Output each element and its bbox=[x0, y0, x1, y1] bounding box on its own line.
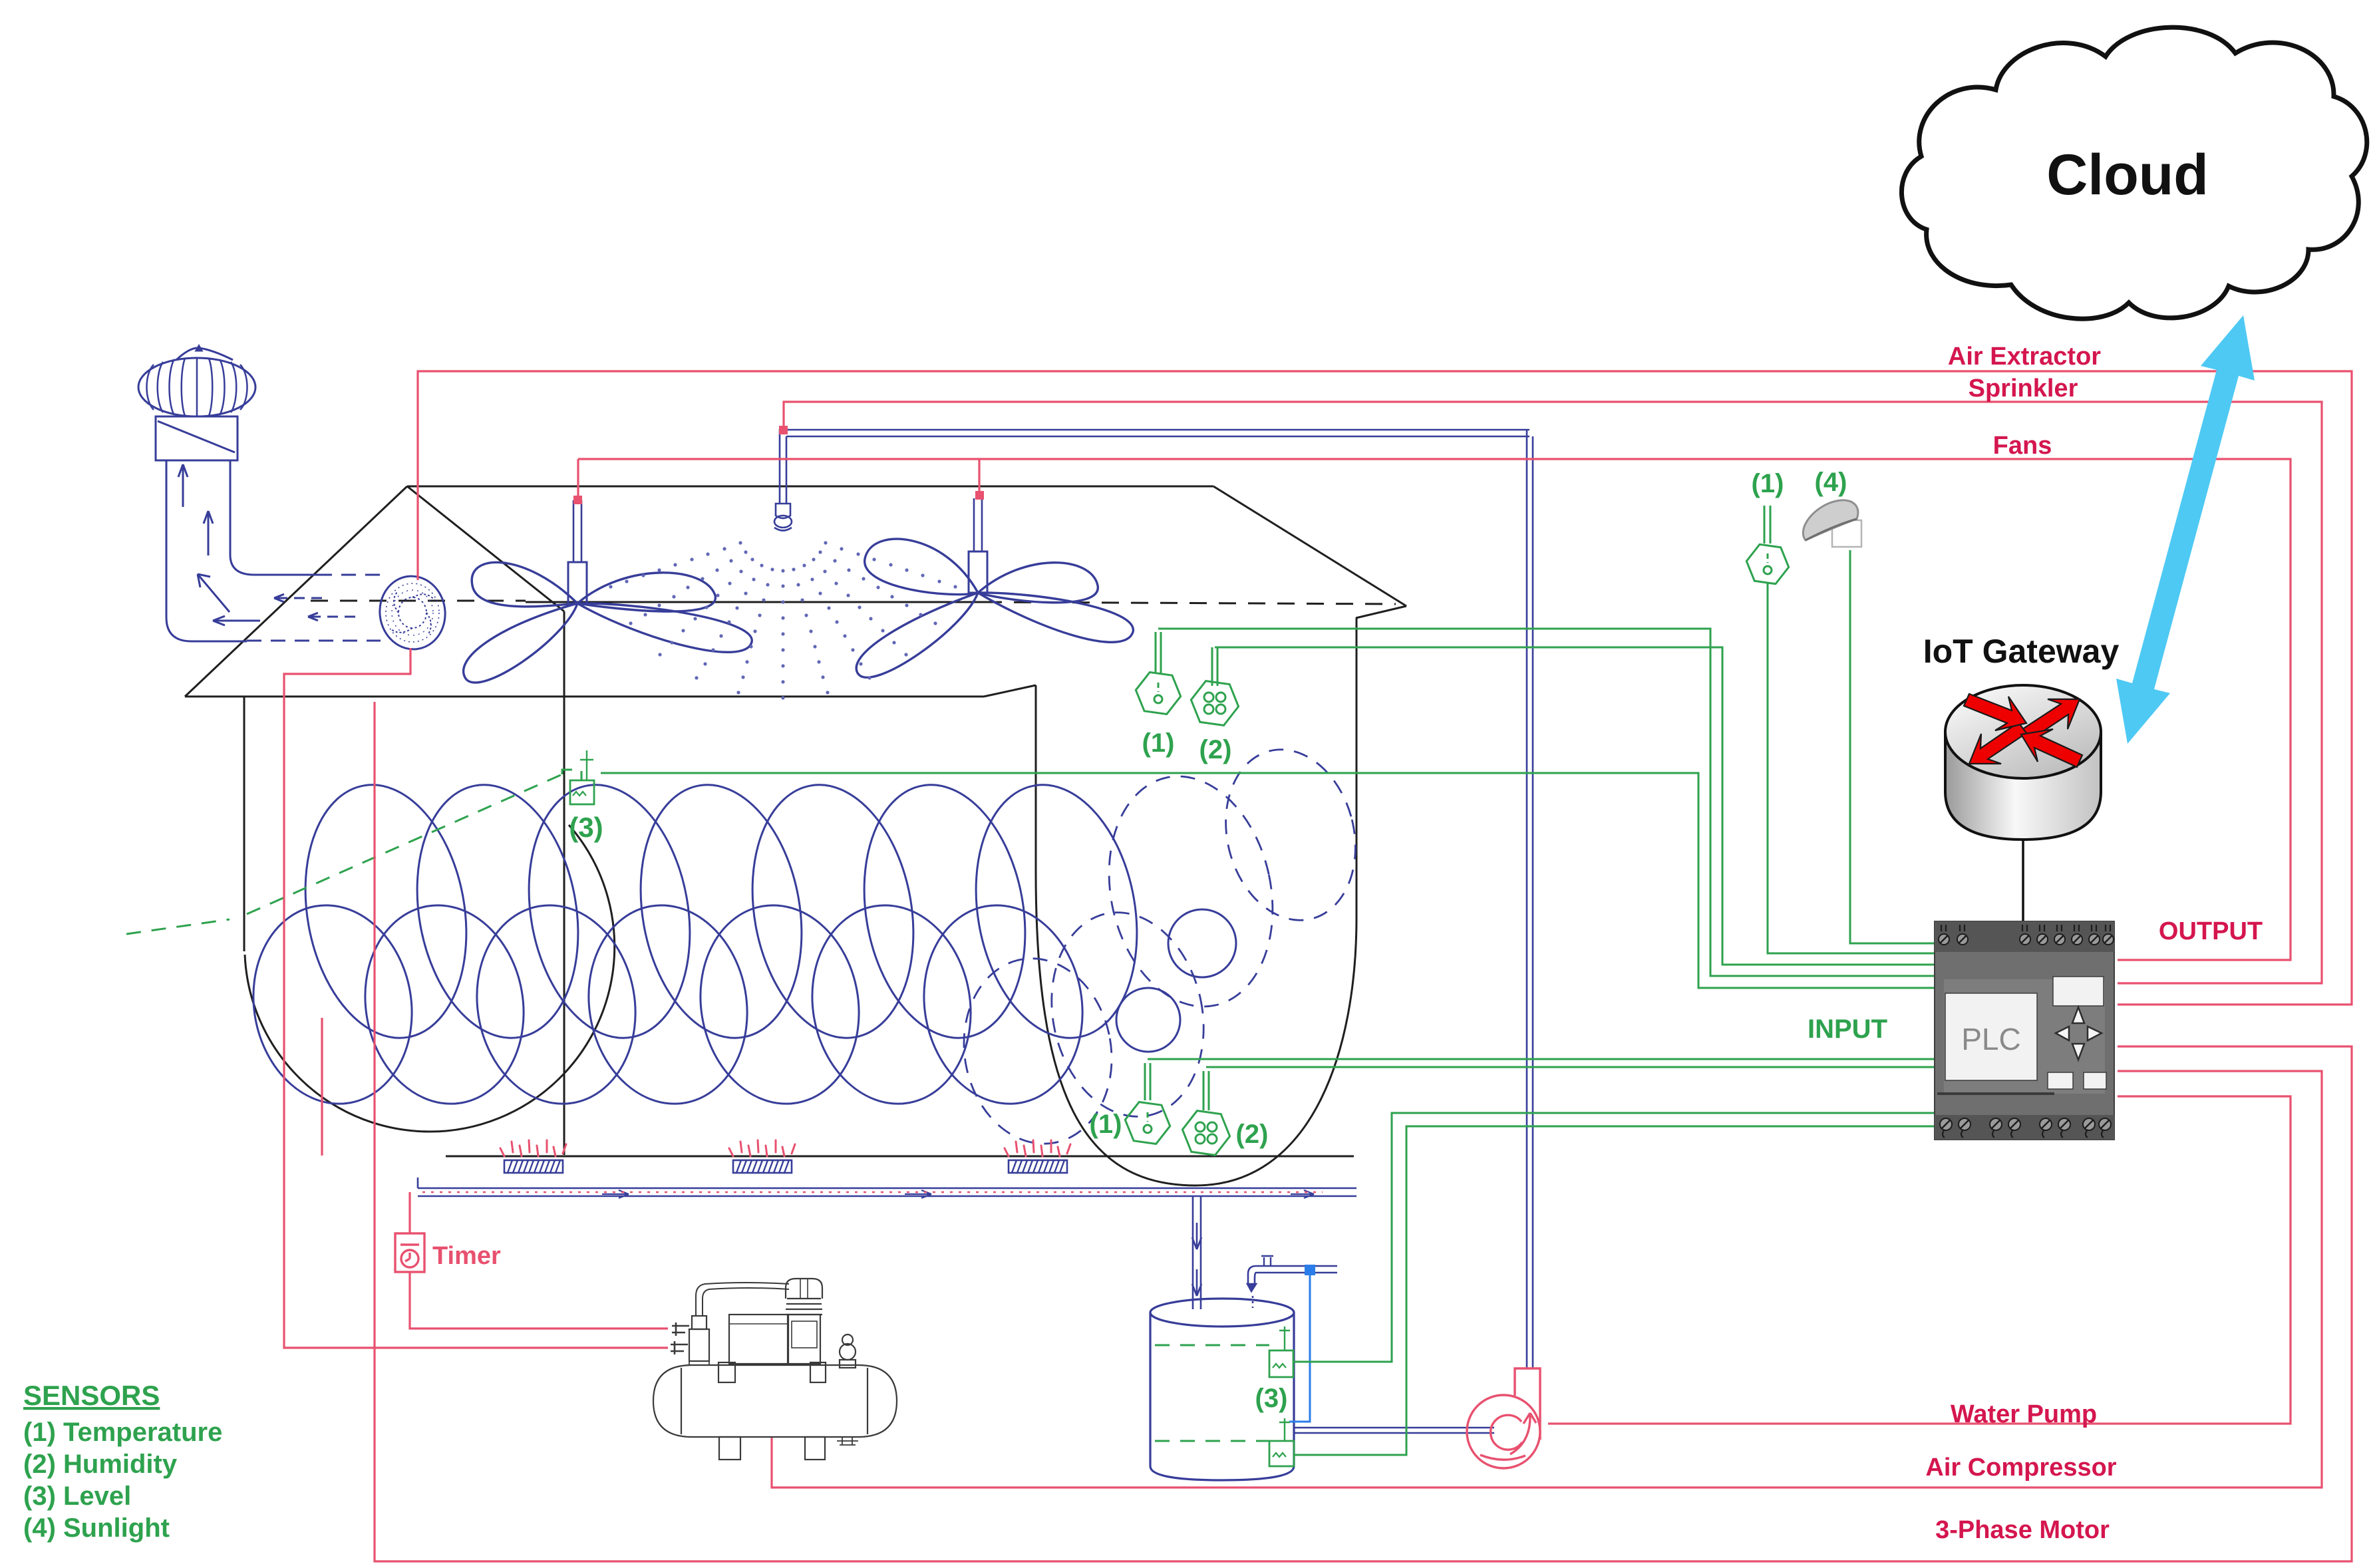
red labels bbox=[432, 343, 2263, 1544]
sensor (2) house top hexagon bbox=[1191, 681, 1238, 726]
heat flames at x=802 bbox=[500, 1148, 504, 1156]
air compressor assembly bbox=[653, 1279, 897, 1460]
ceiling fan 2 bbox=[856, 498, 1133, 677]
water pump volute bbox=[1467, 1368, 1540, 1468]
gateway-PLC link bbox=[2022, 840, 2024, 921]
compost probe (1): wire to PLC bbox=[1145, 1059, 1935, 1100]
heater element at x=1102 bbox=[733, 1160, 792, 1173]
svg-text:IoT Gateway: IoT Gateway bbox=[1923, 633, 2120, 670]
wire: fans output bbox=[578, 459, 2291, 960]
svg-text:(4): (4) bbox=[1815, 468, 1847, 497]
PLC display bbox=[1945, 993, 2037, 1080]
svg-text:(1): (1) bbox=[1142, 728, 1175, 758]
svg-text:INPUT: INPUT bbox=[1808, 1015, 1887, 1044]
heater power line (dotted) bbox=[422, 1191, 1323, 1193]
house: right roof fold bbox=[1356, 606, 1406, 618]
sensor (1) drum bottom hexagon bbox=[1125, 1102, 1170, 1144]
PLC controller bbox=[1935, 921, 2114, 1140]
sunlight sensor (4) dish bbox=[1803, 500, 1861, 547]
air extractor: neck box bbox=[156, 416, 237, 460]
wire: water pump output bbox=[1548, 1096, 2291, 1424]
sensor (1) standalone: riser and wire bbox=[1764, 506, 1770, 544]
auger hidden coils (dashed) bbox=[949, 736, 1372, 1156]
trough level sensor (3): wire to PLC bbox=[601, 773, 1935, 988]
duct: hidden continuation (dashed) bbox=[317, 574, 383, 576]
svg-text:Cloud: Cloud bbox=[2046, 143, 2209, 207]
wire: sprinkler output bbox=[784, 402, 2322, 983]
svg-text:Air Compressor: Air Compressor bbox=[1925, 1454, 2116, 1482]
svg-text:(3) Level: (3) Level bbox=[23, 1482, 131, 1511]
green labels bbox=[569, 468, 1887, 1413]
trough: left wall bbox=[243, 697, 245, 951]
ceiling fan 1 bbox=[464, 500, 752, 683]
svg-text:(4) Sunlight: (4) Sunlight bbox=[23, 1513, 170, 1543]
wire: timer to heater line bbox=[408, 1192, 410, 1233]
wire: exhaust fan feed bbox=[284, 648, 668, 1348]
water tank bbox=[1150, 1299, 1294, 1480]
heat flames at x=1560 bbox=[1005, 1148, 1009, 1156]
PLC arrow keypad bbox=[2056, 1007, 2102, 1060]
fan connector squares bbox=[573, 426, 984, 504]
sprinkler: supply pipe bbox=[780, 430, 1533, 1368]
trough level sensor (3): body bbox=[570, 780, 594, 804]
svg-text:(1) Temperature: (1) Temperature bbox=[23, 1418, 222, 1447]
cloud-gateway data link arrow bbox=[2116, 315, 2255, 744]
tank lower level sensor body bbox=[1269, 1441, 1294, 1466]
wire: air compressor output bbox=[772, 1071, 2322, 1488]
trough compost level (dashed) bbox=[247, 770, 581, 914]
house: front eave bbox=[185, 696, 984, 698]
pump suction line bbox=[1294, 1428, 1494, 1433]
trough: floor line bbox=[446, 1156, 1354, 1158]
heater element at x=758 bbox=[504, 1160, 563, 1173]
wire: air extractor output bbox=[418, 371, 2352, 1005]
house: left roof slope bbox=[185, 486, 407, 697]
bottom pipe lines bbox=[418, 1177, 1356, 1198]
trough: left end cap arc bbox=[245, 825, 615, 1132]
house: right roof slope bbox=[1213, 486, 1406, 606]
svg-text:SENSORS: SENSORS bbox=[23, 1380, 160, 1411]
svg-text:Timer: Timer bbox=[432, 1242, 501, 1270]
sunlight sensor (4): wire bbox=[1850, 550, 1935, 943]
PLC buttons bbox=[2048, 1072, 2073, 1089]
tank lower level sensor: wire to PLC bbox=[1294, 1126, 1935, 1455]
tank upper level sensor body bbox=[1269, 1350, 1293, 1377]
PLC terminal screws bbox=[1939, 925, 2114, 1138]
svg-text:(2): (2) bbox=[1199, 735, 1232, 764]
sensor (1) house top: riser and wire bbox=[1156, 632, 1161, 674]
svg-text:(1): (1) bbox=[1090, 1110, 1122, 1139]
cloud bbox=[1901, 27, 2366, 319]
house: roof ridge bbox=[185, 486, 1406, 1185]
svg-text:(2): (2) bbox=[1236, 1120, 1269, 1149]
svg-text:Water Pump: Water Pump bbox=[1951, 1400, 2097, 1428]
house: eave notch diagonal bbox=[984, 685, 1036, 697]
air extractor: turbine bulb bbox=[138, 346, 255, 416]
svg-text:Air Extractor: Air Extractor bbox=[1948, 343, 2101, 371]
wire: timer to compressor bbox=[410, 1272, 668, 1329]
wire: 3-phase motor output bbox=[375, 702, 2352, 1561]
svg-text:Sprinkler: Sprinkler bbox=[1969, 375, 2078, 402]
heat flames at x=1146 bbox=[729, 1148, 733, 1156]
sensors legend bbox=[23, 1380, 222, 1543]
svg-text:(1): (1) bbox=[1752, 469, 1784, 498]
sensor (2) drum bottom hexagon bbox=[1182, 1111, 1229, 1156]
drain pipe from trough to tank bbox=[1192, 1196, 1201, 1309]
tank upper level sensor: wire to PLC bbox=[1293, 1113, 1935, 1362]
auger front helix bbox=[238, 893, 1098, 1116]
PLC screen window bbox=[2053, 977, 2104, 1006]
svg-text:PLC: PLC bbox=[1961, 1022, 2020, 1056]
duct: airflow arrows bbox=[178, 464, 188, 507]
house: rear eave hidden right (dashed) bbox=[985, 602, 1396, 604]
house: rear wall top edge bbox=[526, 601, 985, 603]
svg-text:(3): (3) bbox=[1255, 1384, 1288, 1413]
auger shaft end circles bbox=[1116, 909, 1236, 1052]
house: gable diagonal bbox=[407, 486, 564, 611]
sensor (1) standalone hexagon bbox=[1746, 544, 1788, 583]
trough: right end cap U bbox=[1036, 618, 1356, 1185]
air extractor: duct bbox=[166, 460, 247, 641]
wire: auger motor lead bbox=[321, 1018, 323, 1156]
IoT gateway router bbox=[1945, 685, 2101, 840]
sprinkler feed down to pump bbox=[1527, 430, 1533, 1368]
svg-text:(3): (3) bbox=[569, 812, 603, 843]
svg-text:OUTPUT: OUTPUT bbox=[2159, 917, 2263, 945]
sprinkler head bbox=[774, 504, 792, 531]
svg-text:Fans: Fans bbox=[1993, 432, 2052, 460]
faucet over tank bbox=[1247, 1256, 1337, 1422]
heater elements and bottom piping bbox=[504, 1160, 1067, 1173]
house: rear eave hidden (dashed) bbox=[311, 600, 526, 602]
house: front-left wall edge bbox=[563, 611, 565, 1155]
heater element at x=1516 bbox=[1009, 1160, 1067, 1173]
svg-text:(2) Humidity: (2) Humidity bbox=[23, 1450, 178, 1479]
svg-text:3-Phase Motor: 3-Phase Motor bbox=[1935, 1516, 2110, 1544]
auger rear helix bbox=[286, 772, 1156, 1050]
sensor (2) house top: riser and wire bbox=[1212, 647, 1217, 686]
timer device bbox=[395, 1233, 424, 1272]
compost probe (2): wire to PLC bbox=[1203, 1067, 1935, 1110]
sensor (1) house top hexagon bbox=[1136, 673, 1180, 714]
sprinkler spray (dotted) bbox=[609, 541, 957, 699]
wall exhaust fan circle bbox=[375, 572, 450, 654]
